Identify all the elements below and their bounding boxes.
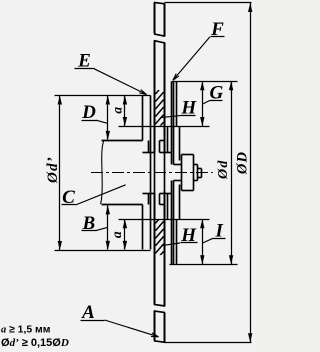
svg-text:ØD: ØD <box>234 151 250 175</box>
svg-text:a ≥ 1,5 мм: a ≥ 1,5 мм <box>1 325 50 336</box>
svg-text:a: a <box>109 231 124 238</box>
svg-text:D: D <box>81 102 96 123</box>
svg-text:Ød’ ≥ 0,15ØD: Ød’ ≥ 0,15ØD <box>1 337 69 349</box>
svg-text:G: G <box>210 83 224 104</box>
svg-text:I: I <box>214 221 223 242</box>
svg-text:a: a <box>109 107 124 114</box>
svg-text:B: B <box>81 213 95 234</box>
svg-text:A: A <box>81 302 95 323</box>
svg-text:Ød: Ød <box>216 159 231 180</box>
svg-text:H: H <box>180 225 197 246</box>
svg-text:Ød’: Ød’ <box>45 156 61 184</box>
svg-text:H: H <box>180 98 197 119</box>
svg-text:C: C <box>62 187 75 208</box>
svg-text:E: E <box>77 50 91 71</box>
svg-text:F: F <box>210 19 224 40</box>
